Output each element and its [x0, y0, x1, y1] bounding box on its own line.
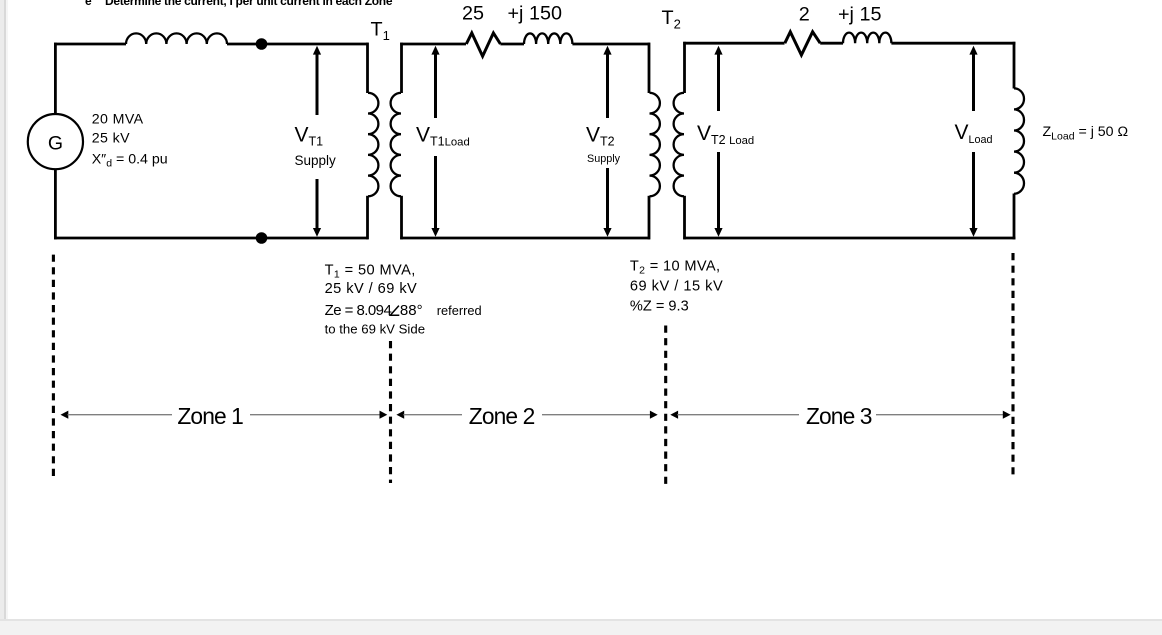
svg-text:Determine the current, I per u: Determine the current, I per unit curren…	[105, 0, 393, 8]
svg-text:Supply: Supply	[295, 153, 337, 168]
svg-text:+j 15: +j 15	[838, 4, 881, 26]
svg-text:%Z = 9.3: %Z = 9.3	[630, 299, 689, 315]
svg-text:69 kV / 15 kV: 69 kV / 15 kV	[630, 279, 723, 295]
svg-text:25: 25	[462, 2, 484, 24]
svg-text:Supply: Supply	[587, 153, 621, 165]
svg-text:2: 2	[799, 4, 810, 26]
svg-text:X″d = 0.4 pu: X″d = 0.4 pu	[92, 152, 168, 170]
svg-text:Zone 2: Zone 2	[469, 403, 535, 429]
svg-text:to the 69 kV Side: to the 69 kV Side	[325, 322, 425, 337]
svg-text:+j 150: +j 150	[508, 2, 562, 24]
svg-text:20 MVA: 20 MVA	[92, 111, 144, 127]
svg-text:Zone 1: Zone 1	[177, 403, 243, 429]
svg-text:25 kV / 69 kV: 25 kV / 69 kV	[325, 281, 418, 297]
svg-text:e: e	[85, 0, 92, 8]
svg-text:G: G	[48, 133, 63, 155]
svg-text:referred: referred	[437, 303, 482, 318]
svg-text:88°: 88°	[400, 302, 423, 319]
svg-text:Zone 3: Zone 3	[806, 403, 872, 429]
svg-text:Ze = 8.094: Ze = 8.094	[325, 302, 392, 319]
svg-text:25 kV: 25 kV	[92, 131, 130, 147]
